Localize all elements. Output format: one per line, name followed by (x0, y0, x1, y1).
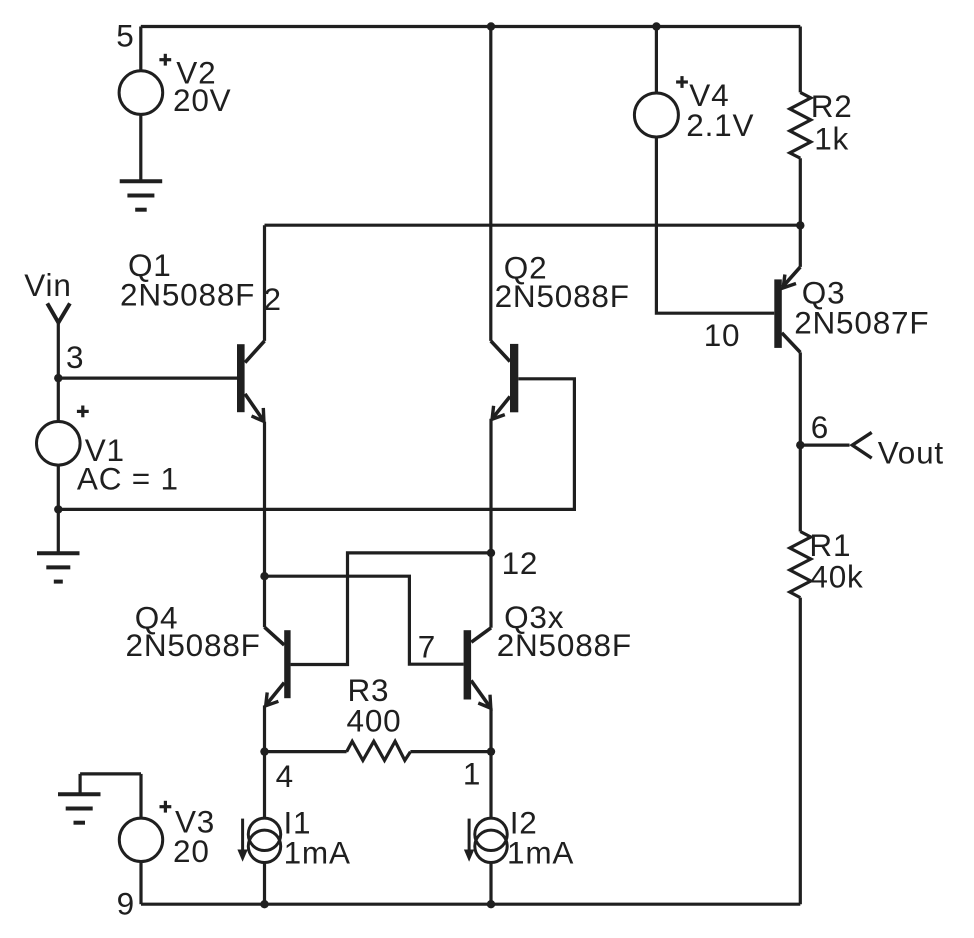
svg-text:7: 7 (418, 629, 436, 665)
svg-text:Vout: Vout (878, 435, 944, 471)
svg-text:20: 20 (173, 833, 210, 869)
svg-text:5: 5 (116, 17, 134, 53)
svg-text:2: 2 (264, 281, 282, 317)
svg-text:2N5087F: 2N5087F (794, 305, 929, 341)
svg-text:2N5088F: 2N5088F (495, 278, 630, 314)
svg-text:R2: R2 (811, 88, 853, 124)
svg-text:20V: 20V (173, 82, 231, 118)
svg-text:6: 6 (811, 409, 829, 445)
svg-text:9: 9 (117, 886, 135, 922)
svg-text:10: 10 (704, 317, 741, 353)
svg-text:1k: 1k (814, 121, 849, 157)
svg-text:2N5088F: 2N5088F (497, 627, 632, 663)
svg-text:1mA: 1mA (507, 835, 574, 871)
svg-text:AC = 1: AC = 1 (77, 460, 179, 496)
svg-text:1mA: 1mA (284, 835, 351, 871)
svg-text:40k: 40k (810, 558, 863, 594)
svg-text:2N5088F: 2N5088F (120, 277, 255, 313)
svg-text:12: 12 (502, 545, 539, 581)
svg-text:1: 1 (463, 756, 481, 792)
svg-text:2.1V: 2.1V (686, 107, 754, 143)
svg-text:3: 3 (66, 339, 84, 375)
svg-text:Vin: Vin (24, 267, 71, 303)
svg-text:2N5088F: 2N5088F (126, 627, 261, 663)
svg-text:400: 400 (347, 703, 402, 739)
svg-text:4: 4 (276, 758, 294, 794)
